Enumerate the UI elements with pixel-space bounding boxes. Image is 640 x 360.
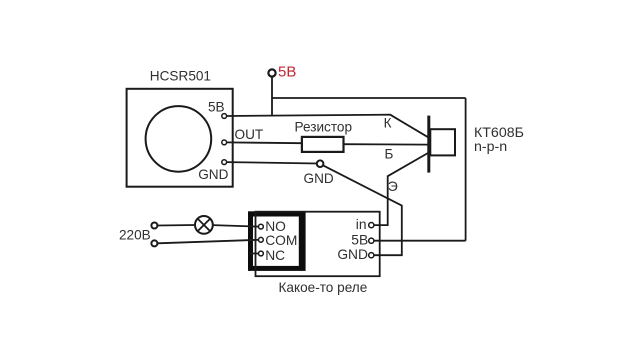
terminal circle 220В bottom <box>151 240 157 246</box>
svg-text:Какое-то реле: Какое-то реле <box>279 280 368 295</box>
wire stub NC pin <box>250 253 259 255</box>
wire right side vertical <box>465 98 467 241</box>
lamp HL1 circle <box>195 216 213 234</box>
wire 220В bottom terminal to relay COM pin <box>158 240 259 244</box>
relay K1 thick contact block <box>248 211 306 271</box>
node 5В power circle <box>268 69 275 76</box>
svg-text:5В: 5В <box>278 64 296 81</box>
relay pin circle COM <box>259 237 264 242</box>
sensor U1 lens circle <box>146 106 212 172</box>
lamp HL1 cross stroke 1 <box>198 219 211 232</box>
sensor pin circle OUT <box>222 140 227 145</box>
svg-text:К: К <box>384 116 392 131</box>
resistor R1 body <box>302 137 344 152</box>
wire 220В top terminal to lamp <box>158 224 196 227</box>
relay K1 outer box <box>256 212 380 277</box>
sensor U1 HCSR501 box <box>127 89 233 187</box>
svg-text:in: in <box>356 217 367 232</box>
relay pin circle in <box>369 223 374 228</box>
svg-text:Резистор: Резистор <box>295 120 353 135</box>
relay pin circle 5В right <box>369 238 374 243</box>
svg-text:OUT: OUT <box>235 127 264 142</box>
relay pin circle NO <box>259 224 264 229</box>
transistor Q1 case rectangle <box>430 129 455 155</box>
wire resistor to base Б <box>344 143 428 145</box>
relay pin circle NC <box>259 251 264 256</box>
sensor pin circle 5В <box>222 114 227 119</box>
wire sensor GND to node <box>227 162 318 163</box>
svg-text:Б: Б <box>385 147 394 162</box>
sensor pin circle GND <box>222 160 227 165</box>
svg-text:220В: 220В <box>119 227 151 242</box>
svg-text:GND: GND <box>337 247 368 262</box>
svg-text:5В: 5В <box>351 233 368 248</box>
svg-text:NC: NC <box>265 248 285 263</box>
svg-text:n-p-n: n-p-n <box>474 139 507 155</box>
node GND circle <box>317 160 324 167</box>
wire 5В node vertical drop <box>271 77 273 116</box>
terminal circle 220В top <box>151 223 157 229</box>
svg-text:GND: GND <box>198 167 228 182</box>
wire sensor OUT to resistor <box>227 141 302 144</box>
svg-text:COM: COM <box>265 233 297 248</box>
svg-text:5В: 5В <box>208 100 225 115</box>
relay K1 thick block inner white <box>253 217 299 266</box>
svg-text:HCSR501: HCSR501 <box>150 69 211 84</box>
wire emitter Э to relay in pin <box>373 153 428 225</box>
wire GND diagonal to relay GND pin <box>323 165 402 255</box>
svg-text:GND: GND <box>304 171 334 186</box>
wire to relay 5В pin <box>374 240 466 242</box>
wire 5В top branch horizontal <box>272 97 466 99</box>
transistor Q1 base bar <box>427 116 430 173</box>
wire sensor 5В pin to collector bend <box>227 115 428 138</box>
wire lamp to relay NO pin <box>213 225 259 227</box>
svg-text:Э: Э <box>388 178 398 194</box>
relay pin circle GND right <box>369 253 374 258</box>
lamp HL1 cross stroke 2 <box>198 219 211 232</box>
